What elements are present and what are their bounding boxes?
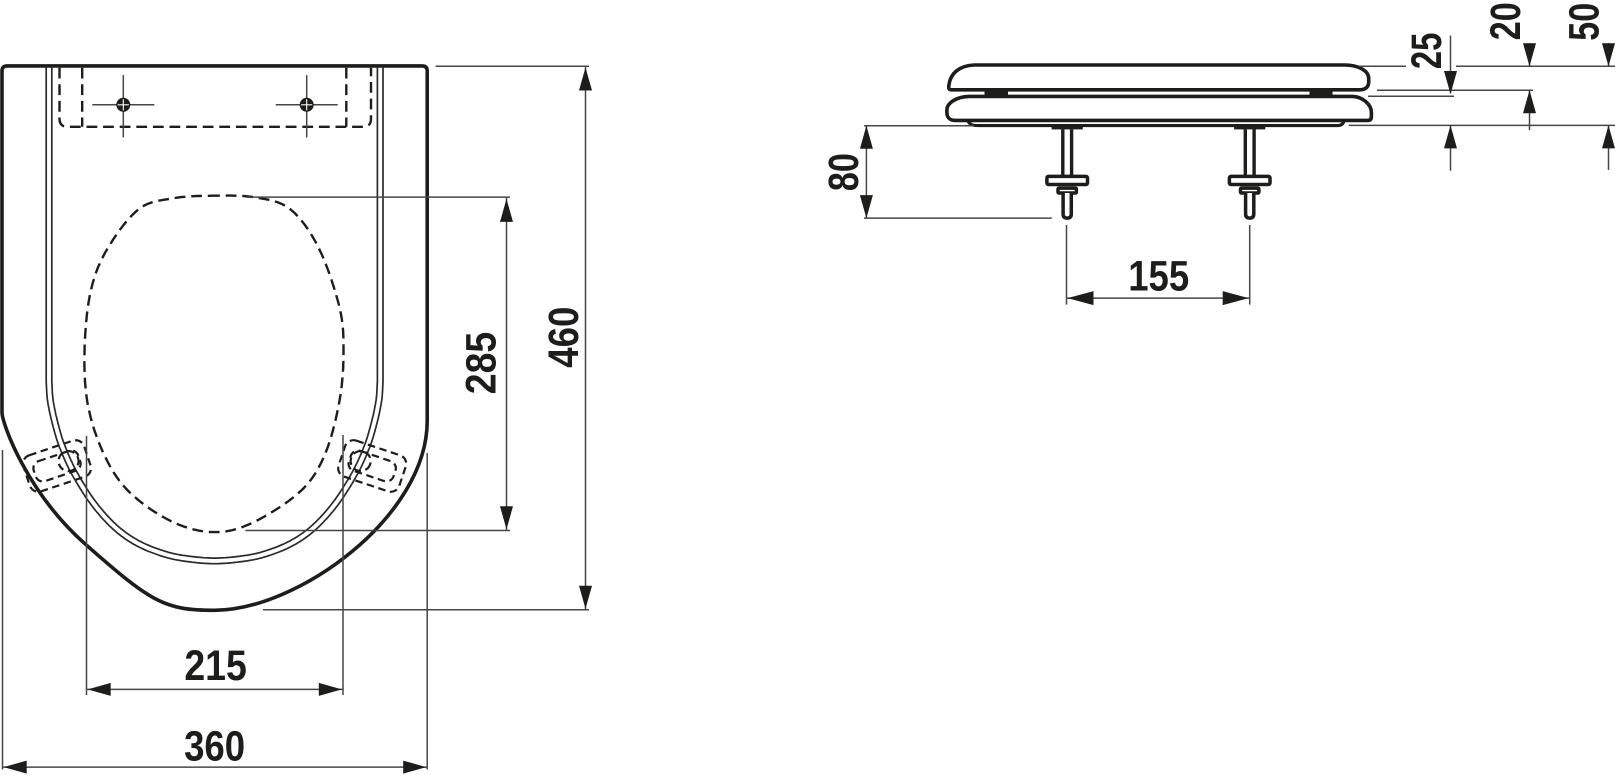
bolt hole left <box>116 98 130 112</box>
lid profile (side view) <box>949 65 1369 90</box>
svg-text:80: 80 <box>820 153 868 191</box>
hinge buffer pad left (black) <box>985 89 1009 97</box>
seat inner ring line A <box>46 66 383 564</box>
fixing bolt at x=1067.2 : wing nut plate <box>1047 176 1088 184</box>
hinge dashed inner line right <box>345 68 347 127</box>
ext line seat bottom (L4) <box>1349 124 1615 126</box>
dim 155 line <box>1067 297 1250 299</box>
dim 20 line and arrows <box>1529 43 1531 66</box>
dim 25 line and arrows <box>1450 36 1452 94</box>
svg-text:20: 20 <box>1482 2 1530 40</box>
bumper right (dashed) <box>336 438 409 494</box>
dim 80 extension lines <box>864 125 974 127</box>
svg-text:215: 215 <box>184 642 247 690</box>
ext line lid top (L1) <box>1359 65 1406 67</box>
seat bottom rim contour <box>968 121 1344 126</box>
dim 80 line <box>865 126 867 218</box>
ext line seat top (L3) <box>1368 95 1454 97</box>
svg-text:360: 360 <box>184 722 245 770</box>
svg-text:50: 50 <box>1560 3 1608 41</box>
fixing bolt at x=1067.2 : nut block <box>1058 188 1076 193</box>
dim 285 extension lines <box>245 196 510 198</box>
dim 460 line <box>585 67 587 610</box>
hinge dashed inner line left <box>81 68 83 127</box>
ext line lid bottom / seam (L2) <box>1377 89 1533 91</box>
dim 360 line <box>3 766 428 768</box>
fixing bolt at x=1249.7 : nut block <box>1241 188 1259 193</box>
fixing bolt at x=1067.2 : tip <box>1063 193 1071 218</box>
dim 50 line and arrows <box>1608 43 1610 66</box>
dim 360 extension lines <box>2 450 4 770</box>
fixing bolt at x=1249.7 : tip <box>1246 193 1254 218</box>
seat opening dashed oval <box>84 196 343 532</box>
dim 215 extension lines <box>86 436 88 695</box>
seat outer outline (top view) <box>2 66 427 610</box>
svg-text:25: 25 <box>1403 33 1451 70</box>
bumper left (dashed) <box>21 438 94 494</box>
svg-text:155: 155 <box>1128 253 1189 301</box>
fixing bolt at x=1249.7 : shaft <box>1244 129 1247 176</box>
svg-text:285: 285 <box>458 332 506 395</box>
hinge zone dashed rectangle <box>60 68 372 127</box>
fixing bolt at x=1249.7 : hinge plate <box>1234 126 1265 130</box>
fixing bolt at x=1067.2 : shaft <box>1061 129 1064 176</box>
bolt hole right crosshair <box>276 104 338 106</box>
bolt hole left crosshair <box>92 104 154 106</box>
dim 285 line <box>506 198 508 531</box>
seat inner ring line B <box>52 66 378 558</box>
fixing bolt at x=1067.2 : hinge plate <box>1052 126 1083 130</box>
hinge buffer pad right (black) <box>1310 89 1333 97</box>
fixing bolt at x=1249.7 : wing nut plate <box>1229 176 1270 184</box>
dim 155 extension lines <box>1066 225 1068 305</box>
svg-text:460: 460 <box>540 307 588 368</box>
bolt hole right <box>300 98 314 112</box>
seat profile (side view) <box>947 96 1372 120</box>
dim 215 line <box>87 688 344 690</box>
dim 460 extension lines <box>436 65 589 67</box>
